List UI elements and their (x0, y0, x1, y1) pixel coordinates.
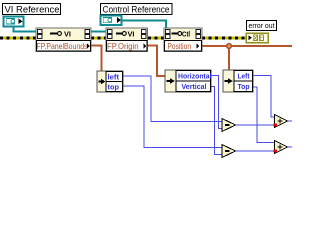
VI Reference label (3, 4, 61, 15)
svg-text:VI: VI (64, 31, 71, 38)
property node FP.Origin (106, 28, 148, 52)
add 2 (274, 141, 288, 154)
wire: origin cluster to unbundle (147, 46, 165, 77)
wire: error in (left edge to FP.PanelBounds) (0, 37, 36, 40)
property node FP.PanelBounds (36, 28, 91, 52)
wire: VI refnum terminal to FP.PanelBounds (14, 27, 37, 32)
svg-text:Top: Top (238, 82, 250, 91)
svg-text:Vertical: Vertical (182, 82, 207, 91)
unbundle Horizontal/Vertical (165, 70, 212, 92)
wire: position Left to add1 top (253, 76, 275, 118)
svg-text:Ctl: Ctl (182, 31, 190, 38)
subtract 2 (222, 145, 236, 158)
wire: position Top to add2 top (253, 87, 275, 143)
wire: error FP.PanelBounds to FP.Origin (91, 37, 106, 40)
Control Reference label (101, 4, 173, 15)
wire: add2 out to right edge (288, 146, 293, 148)
wire: subtract2 out to add2 bottom (236, 150, 275, 152)
wire: origin Vertical to subtract2 bottom (211, 87, 222, 155)
wire: add1 out to right edge (288, 120, 293, 122)
property node Position (164, 28, 202, 52)
svg-text:VI Reference: VI Reference (5, 5, 60, 15)
svg-text:Position: Position (168, 42, 192, 51)
wire: panel bounds cluster to unbundle (91, 46, 102, 72)
svg-text:FP.Origin: FP.Origin (107, 42, 139, 51)
junction: position cluster branch (227, 44, 232, 49)
wire: bounds left to subtract1 top (123, 76, 222, 122)
wire: VI refnum FP.PanelBounds to FP.Origin (91, 31, 106, 33)
subtract 1 (222, 119, 236, 132)
svg-text:error out: error out (249, 21, 276, 30)
unbundle left/top (97, 71, 123, 92)
wire: bounds top to subtract2 top (123, 86, 222, 148)
wire: position cluster to unbundle and right edge (202, 46, 292, 70)
VI Reference terminal (4, 17, 24, 27)
wire: error FP.Origin to Position (147, 37, 164, 40)
svg-text:top: top (108, 82, 120, 91)
svg-text:FP.PanelBounds: FP.PanelBounds (37, 42, 88, 51)
Control Reference terminal (101, 16, 122, 26)
wire: control refnum terminal to Position node (122, 21, 167, 29)
svg-text:VI: VI (128, 31, 135, 38)
svg-text:left: left (108, 72, 120, 81)
wire: error Position to error out (202, 37, 246, 40)
error out terminal (246, 33, 268, 43)
wire: origin Horizontal to subtract1 bottom (211, 76, 222, 129)
add 1 (274, 115, 288, 128)
error out label (247, 21, 277, 31)
svg-text:Left: Left (238, 72, 250, 81)
wire: subtract1 out to add1 bottom (236, 124, 275, 126)
svg-text:Horizontal: Horizontal (178, 72, 212, 81)
unbundle Left/Top (223, 70, 253, 92)
svg-text:Control Reference: Control Reference (103, 5, 170, 15)
